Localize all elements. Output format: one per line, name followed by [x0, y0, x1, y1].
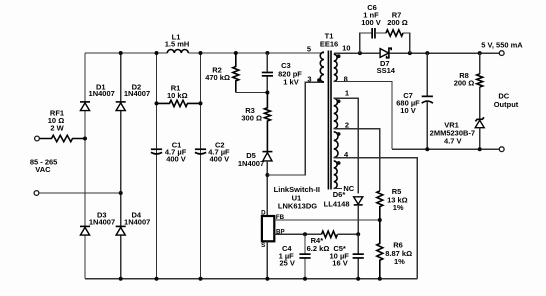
svg-text:S: S [261, 242, 265, 249]
svg-text:25 V: 25 V [279, 259, 294, 268]
svg-text:3: 3 [307, 75, 311, 84]
wire C6 to R7 [376, 32, 386, 34]
node snubber right [408, 51, 412, 55]
label DC Output [494, 91, 519, 109]
node C5 bottom rail [356, 277, 360, 281]
transformer T1 primary winding (pins 5-3) [307, 45, 324, 84]
capacitor C2 [195, 141, 230, 164]
wire snubber branch left leg [360, 33, 371, 53]
wire R4 to bias node [338, 233, 359, 235]
wire bottom rail [85, 278, 417, 280]
capacitor C3 [262, 53, 302, 93]
node pin 3 winding dot [317, 78, 321, 82]
wire second column (D2/D4 branch) [120, 53, 122, 279]
svg-text:1N4007: 1N4007 [238, 159, 264, 168]
resistor R1 [157, 84, 201, 107]
svg-text:VAC: VAC [35, 165, 51, 174]
node D6 cathode / bias node [356, 232, 360, 236]
node bottom rail C1 [155, 277, 159, 281]
diode D6 [324, 190, 363, 234]
wire secondary top rail to D7 [334, 52, 380, 54]
svg-text:1%: 1% [394, 257, 405, 266]
node top rail R2 [234, 51, 238, 55]
wire C2 column [200, 53, 202, 279]
zener diode VR1 [430, 117, 485, 149]
svg-text:6.2 kΩ: 6.2 kΩ [307, 244, 330, 253]
wire pin 4 to bottom rail [334, 158, 418, 279]
node R8 top [478, 51, 482, 55]
svg-text:8: 8 [344, 75, 348, 84]
wire output return rail [392, 148, 499, 150]
node input 2 junction [119, 191, 123, 195]
resistor R2 [205, 53, 239, 93]
node snubber left [358, 51, 362, 55]
svg-text:2 W: 2 W [50, 123, 64, 132]
transformer T1 winding (pin 4-NC) [334, 161, 341, 189]
wire pin 1 to D6 [334, 98, 359, 193]
node top rail D2 [119, 51, 123, 55]
svg-text:LNK613DG: LNK613DG [278, 201, 317, 210]
node R1 right [199, 101, 203, 105]
svg-text:300 Ω: 300 Ω [241, 114, 262, 123]
node RF1 output [83, 137, 87, 141]
node R2/C3/R3 junction [265, 91, 269, 95]
svg-text:1N4007: 1N4007 [89, 89, 115, 98]
inductor L1 [165, 33, 190, 53]
wire BP line [274, 233, 321, 235]
resistor R5 [377, 187, 408, 220]
svg-text:D: D [261, 210, 266, 217]
svg-text:Output: Output [494, 100, 519, 109]
svg-text:SS14: SS14 [377, 66, 396, 75]
transformer T1 core [320, 32, 338, 190]
wire NC stub [334, 188, 342, 190]
node VR1 bottom [478, 147, 482, 151]
wire drain link to transformer pin 3 [267, 82, 324, 175]
node top rail C2 [199, 51, 203, 55]
node BP / C4 [303, 232, 307, 236]
wire input line 2 [39, 192, 121, 194]
svg-text:1 kV: 1 kV [283, 77, 298, 86]
svg-text:D6*: D6* [333, 190, 346, 199]
label AC input [30, 157, 58, 174]
input terminal line 2 [34, 191, 39, 196]
diode D3 [80, 211, 115, 236]
output terminal plus [499, 51, 504, 56]
wire U1 source to bottom rail [266, 241, 268, 278]
wire R2 bottom to C3 bottom [236, 92, 268, 94]
node top rail C1 [155, 51, 159, 55]
node FB / R5 / R6 [378, 218, 382, 222]
svg-text:10 kΩ: 10 kΩ [167, 91, 188, 100]
node R6 bottom rail [378, 277, 382, 281]
wire pin 8 to output return [334, 82, 392, 150]
svg-text:EE16: EE16 [320, 39, 338, 48]
svg-text:DC: DC [498, 91, 509, 100]
wire D7 cathode to output terminal [389, 52, 499, 54]
svg-text:1: 1 [345, 89, 349, 98]
svg-text:16 V: 16 V [332, 258, 347, 267]
diode D7 [377, 48, 396, 75]
capacitor C7 [396, 53, 433, 149]
svg-text:5: 5 [307, 45, 311, 54]
wire snubber branch right leg [403, 33, 410, 53]
resistor R8 [454, 53, 483, 119]
output terminal minus [499, 147, 504, 152]
wire FB line [274, 219, 380, 221]
svg-text:200 Ω: 200 Ω [454, 79, 475, 88]
svg-text:10 V: 10 V [400, 106, 415, 115]
input terminal line 1 [35, 136, 40, 141]
node D5 anode / drain link [265, 173, 269, 177]
resistor R7 [386, 10, 408, 36]
node C7 bottom [425, 147, 429, 151]
svg-text:400 V: 400 V [209, 155, 229, 164]
resistor R4 [307, 231, 338, 253]
svg-text:1N4007: 1N4007 [124, 218, 150, 227]
svg-text:10: 10 [342, 44, 350, 53]
node top rail C3 [265, 51, 269, 55]
svg-text:1%: 1% [393, 203, 404, 212]
capacitor C6 [361, 3, 381, 39]
svg-text:LL4148: LL4148 [324, 199, 350, 208]
svg-text:4.7 V: 4.7 V [444, 136, 462, 145]
node U1 source bottom rail [265, 277, 269, 281]
wire pin 2 to R5 [334, 129, 380, 191]
svg-text:5 V, 550 mA: 5 V, 550 mA [481, 40, 523, 49]
svg-text:470 kΩ: 470 kΩ [205, 73, 230, 82]
resistor RF1 [40, 109, 85, 142]
wire left column (D1/D3 branch) [84, 53, 86, 279]
wire top rail right of L1 to transformer pin 5 [188, 52, 324, 54]
svg-text:400 V: 400 V [166, 155, 186, 164]
capacitor C1 [151, 141, 187, 164]
node C4 bottom rail [303, 277, 307, 281]
diode D5 [238, 151, 273, 216]
node R1 left [155, 101, 159, 105]
wire top rail left (bridge + to L1) [85, 52, 167, 54]
diode D1 [80, 82, 115, 110]
wire C1 column [156, 53, 158, 279]
capacitor C4 [279, 234, 311, 278]
svg-text:100 V: 100 V [361, 18, 381, 27]
transformer T1 secondary winding (pins 10-8) [334, 44, 351, 84]
svg-text:1N4007: 1N4007 [89, 218, 115, 227]
diode D4 [116, 211, 151, 236]
node bottom rail C2 [199, 277, 203, 281]
capacitor C5 [330, 234, 364, 278]
transformer T1 bias winding (pins 1-2) [334, 89, 349, 130]
node C7 top [425, 51, 429, 55]
resistor R3 [241, 93, 270, 152]
diode D2 [116, 82, 150, 110]
node bottom rail D2/D4 [119, 277, 123, 281]
svg-text:1N4007: 1N4007 [124, 89, 150, 98]
op-amp U1 LinkSwitch-II LNK613DG [261, 185, 320, 249]
svg-text:1.5 mH: 1.5 mH [165, 40, 190, 49]
resistor R6 [377, 220, 412, 279]
svg-text:200 Ω: 200 Ω [387, 18, 408, 27]
transformer T1 winding (pins 2-4) [334, 132, 349, 159]
